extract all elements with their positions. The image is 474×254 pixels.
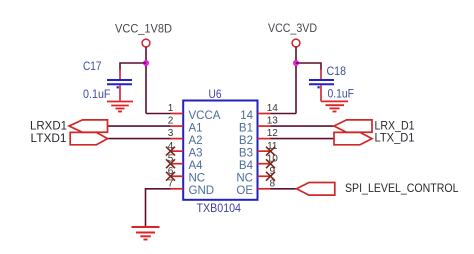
wire C18 to ground: [320, 85, 322, 101]
pin 12 stub: [258, 138, 271, 140]
no-connect X pin 10: [266, 159, 275, 168]
svg-text:VCC_1V8D: VCC_1V8D: [115, 21, 172, 35]
svg-text:B1: B1: [239, 122, 253, 134]
wire red segment into C17: [119, 69, 121, 79]
svg-text:14: 14: [267, 103, 279, 114]
wire pin 13 to LRX_D1: [271, 125, 335, 127]
junction node VCC_3VD: [293, 60, 299, 66]
svg-text:13: 13: [267, 116, 279, 127]
pin 3 stub: [171, 138, 184, 140]
svg-text:14: 14: [240, 110, 253, 122]
svg-text:1: 1: [168, 103, 174, 114]
pin 8 stub: [258, 188, 271, 190]
wire LRXD1 to pin 2: [108, 125, 171, 127]
wire VCC_1V8D vertical to pin 1 row: [145, 47, 147, 114]
port SPI_LEVEL_CONTROL tag: [297, 183, 335, 196]
pin 9 stub: [258, 175, 271, 177]
svg-text:C18: C18: [327, 66, 347, 78]
svg-text:TXB0104: TXB0104: [197, 203, 242, 215]
ground below C17: [107, 102, 133, 112]
svg-text:SPI_LEVEL_CONTROL: SPI_LEVEL_CONTROL: [345, 181, 459, 195]
no-connect X pin 6: [166, 172, 175, 181]
svg-text:VCC_3VD: VCC_3VD: [268, 21, 317, 35]
capacitor C17: [107, 80, 132, 88]
pin 11 stub: [258, 150, 271, 152]
no-connect X pin 5: [166, 159, 175, 168]
wire C17 to ground: [119, 85, 121, 100]
pin 2 stub: [171, 125, 184, 127]
power symbol VCC_1V8D circle: [142, 39, 150, 47]
ground below pin 7: [132, 227, 160, 240]
svg-text:B2: B2: [239, 135, 253, 147]
wire red segment into C18: [320, 69, 322, 79]
svg-text:B3: B3: [239, 147, 253, 159]
svg-text:A3: A3: [189, 147, 203, 159]
pin 10 stub: [258, 163, 271, 165]
svg-text:A1: A1: [189, 122, 203, 134]
op IC U6 component box: [183, 101, 257, 200]
pin 5 stub: [171, 163, 184, 165]
svg-text:12: 12: [267, 128, 279, 139]
port LRXD1 tag: [69, 120, 108, 132]
no-connect X pin 4: [166, 147, 175, 156]
svg-text:0.1uF: 0.1uF: [83, 89, 111, 101]
svg-text:A2: A2: [189, 135, 203, 147]
port LTXD1 tag: [70, 132, 107, 144]
wire VCC_3VD vertical to pin 14 row: [295, 47, 297, 114]
svg-text:B4: B4: [239, 160, 254, 172]
svg-text:NC: NC: [236, 173, 253, 185]
no-connect X pin 9: [266, 172, 275, 181]
port LRX_D1 tag: [334, 120, 372, 132]
power symbol VCC_3VD circle: [292, 39, 300, 47]
svg-text:VCCA: VCCA: [189, 110, 221, 122]
svg-text:GND: GND: [189, 185, 215, 197]
junction node VCC_1V8D: [143, 60, 149, 66]
svg-text:7: 7: [168, 178, 174, 189]
svg-text:LTX_D1: LTX_D1: [375, 131, 415, 145]
svg-text:0.1uF: 0.1uF: [328, 89, 355, 101]
ground below C18: [321, 101, 348, 111]
svg-text:OE: OE: [236, 185, 253, 197]
wire VCC_1V8D to pin 1: [146, 113, 171, 115]
wire LTXD1 to pin 3: [108, 138, 171, 140]
no-connect X pin 11: [266, 147, 275, 156]
svg-text:A4: A4: [189, 160, 204, 172]
svg-text:C17: C17: [83, 61, 102, 73]
pin 13 stub: [258, 125, 271, 127]
wire junction to C18: [296, 63, 321, 70]
wire junction to C17: [120, 63, 146, 70]
svg-text:NC: NC: [189, 173, 206, 185]
pin 1 stub: [171, 113, 184, 115]
pin 4 stub: [171, 150, 184, 152]
svg-text:3: 3: [168, 128, 174, 139]
svg-text:U6: U6: [209, 89, 222, 101]
port LTX_D1 tag: [334, 132, 372, 144]
svg-text:LTXD1: LTXD1: [31, 131, 67, 145]
wire pin 7 to ground: [146, 189, 171, 227]
pin 14 stub: [258, 113, 271, 115]
wire pin 8 to SPI_LEVEL_CONTROL: [271, 188, 297, 190]
pin 6 stub: [171, 175, 184, 177]
svg-text:2: 2: [168, 116, 174, 127]
wire pin 12 to LTX_D1: [271, 138, 335, 140]
pin 7 stub: [171, 188, 184, 190]
capacitor C18: [309, 80, 334, 88]
wire VCC_3VD to pin 14: [271, 113, 297, 115]
